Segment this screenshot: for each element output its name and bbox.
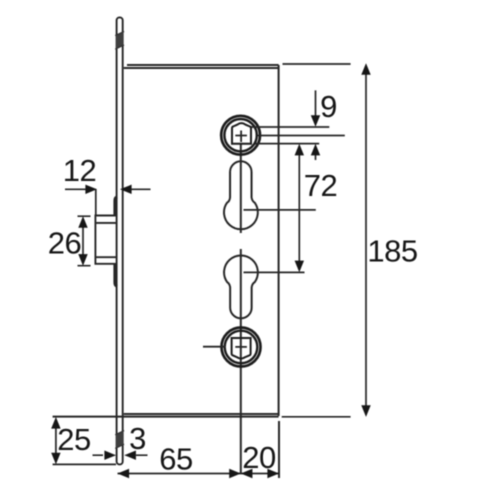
svg-text:26: 26: [48, 226, 81, 261]
svg-text:25: 25: [57, 422, 90, 457]
svg-text:20: 20: [242, 440, 276, 475]
svg-text:72: 72: [304, 168, 337, 203]
svg-text:3: 3: [129, 421, 146, 456]
svg-text:12: 12: [63, 153, 96, 188]
svg-text:65: 65: [159, 442, 192, 477]
svg-text:185: 185: [367, 234, 417, 269]
svg-text:9: 9: [320, 89, 337, 124]
